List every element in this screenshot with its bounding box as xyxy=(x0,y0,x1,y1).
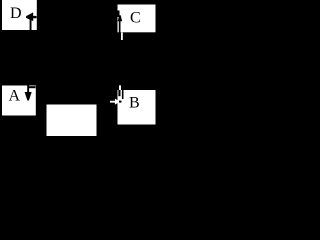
svg-text:A: A xyxy=(9,88,21,105)
svg-text:D: D xyxy=(10,5,22,22)
svg-text:B: B xyxy=(129,95,140,112)
svg-text:C: C xyxy=(130,10,141,27)
